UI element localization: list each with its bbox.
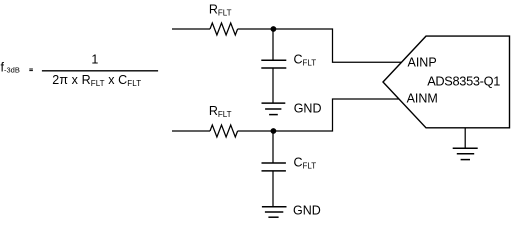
wire (464, 128, 466, 149)
ground (top circuit) (262, 103, 286, 115)
node (bottom junction) (271, 128, 277, 134)
svg-text:AINM: AINM (407, 92, 438, 106)
wire (238, 29, 402, 62)
svg-text:CFLT: CFLT (294, 155, 317, 170)
svg-text:GND: GND (294, 102, 322, 116)
wire (272, 171, 274, 207)
wire (172, 130, 210, 132)
ground (ADC) (453, 148, 478, 159)
svg-text:2π x RFLT x CFLT: 2π x RFLT x CFLT (52, 73, 141, 88)
svg-text:ADS8353-Q1: ADS8353-Q1 (427, 73, 500, 88)
wire (272, 29, 274, 60)
svg-text:GND: GND (293, 204, 321, 218)
node (top junction) (271, 26, 277, 32)
wire (272, 68, 274, 103)
ground (bottom circuit) (262, 207, 287, 218)
formula equals sign (29, 69, 33, 70)
wire (172, 28, 210, 30)
svg-text:f-3dB: f-3dB (1, 61, 20, 75)
fraction bar (42, 70, 158, 72)
resistor R_FLT (bottom) (210, 125, 238, 137)
capacitor C_FLT (bottom) (262, 162, 286, 164)
svg-text:1: 1 (91, 53, 98, 67)
capacitor C_FLT (top) (261, 59, 286, 61)
op-amp U1 ADS8353-Q1 body (383, 36, 510, 128)
svg-text:RFLT: RFLT (209, 2, 232, 17)
svg-text:CFLT: CFLT (294, 52, 317, 67)
svg-text:RFLT: RFLT (209, 104, 232, 119)
resistor R_FLT (top) (210, 23, 238, 35)
svg-text:AINP: AINP (408, 55, 437, 69)
wire (238, 99, 400, 131)
wire (272, 131, 274, 163)
